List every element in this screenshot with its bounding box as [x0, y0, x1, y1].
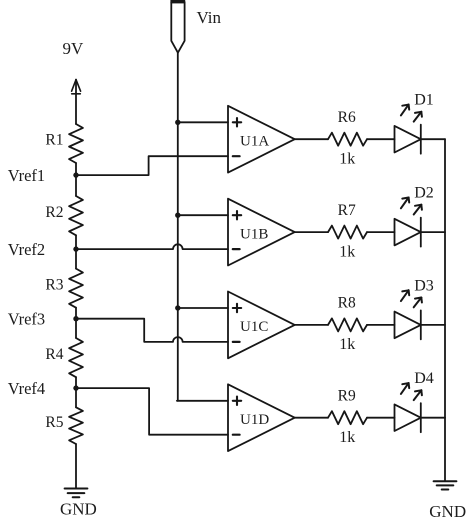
svg-text:U1D: U1D — [240, 412, 269, 428]
wire U1B output to R7 — [295, 231, 328, 233]
node Vref4 junction dot — [73, 385, 78, 390]
wire output rail (LED cathodes to ground) — [444, 139, 446, 481]
svg-text:R8: R8 — [338, 295, 356, 312]
junction dot Vin / U1A + input — [175, 120, 180, 125]
svg-text:R4: R4 — [45, 346, 63, 363]
wire R4 to R5 — [75, 377, 77, 407]
wire Vin to U1D non-inverting input — [177, 400, 228, 402]
resistor R8 — [328, 318, 367, 331]
wire U1D output to R9 — [295, 417, 328, 419]
svg-text:Vref3: Vref3 — [8, 310, 46, 329]
wire D4 to output rail — [421, 417, 445, 419]
svg-text:Vref4: Vref4 — [8, 379, 46, 398]
wire R8 to D3 — [367, 324, 395, 326]
op-amp U1A — [228, 106, 295, 173]
node Vref1 junction dot — [73, 172, 78, 177]
svg-text:GND: GND — [429, 502, 466, 521]
wire D2 to output rail — [421, 231, 445, 233]
svg-text:1k: 1k — [339, 243, 355, 260]
wire Vref4 to U1D inverting input — [76, 388, 228, 435]
resistor R5 — [69, 407, 83, 444]
svg-text:R9: R9 — [338, 388, 356, 405]
ground (left) — [65, 489, 88, 498]
wire 9V to R1 — [75, 80, 77, 124]
wire D3 to output rail — [421, 324, 445, 326]
svg-text:GND: GND — [60, 499, 97, 518]
wire Vref1 to U1A inverting input — [76, 156, 228, 175]
node Vref2 junction dot — [73, 246, 78, 251]
svg-text:Vin: Vin — [197, 8, 222, 27]
pin - (inverting input) of U1B — [233, 248, 240, 250]
wire Vref2 to U1B inverting input — [76, 244, 228, 249]
LED D1 — [395, 105, 422, 154]
resistor R7 — [328, 226, 367, 239]
wire U1C output to R8 — [295, 324, 328, 326]
svg-text:R2: R2 — [45, 204, 63, 221]
svg-text:1k: 1k — [339, 151, 355, 168]
pin - (inverting input) of U1D — [233, 434, 240, 436]
9V supply arrow — [72, 80, 81, 94]
junction dot Vin / U1C + input — [175, 305, 180, 310]
pin - (inverting input) of U1A — [233, 155, 240, 157]
wire R1 to R2 — [75, 163, 77, 196]
LED D2 — [395, 198, 422, 247]
svg-text:R6: R6 — [338, 109, 356, 126]
svg-text:D2: D2 — [414, 185, 434, 202]
svg-text:U1B: U1B — [240, 226, 268, 242]
op-amp U1B — [228, 199, 295, 266]
svg-text:9V: 9V — [63, 39, 85, 58]
svg-text:1k: 1k — [339, 336, 355, 353]
wire R3 to R4 — [75, 308, 77, 338]
resistor R3 — [69, 269, 83, 308]
junction dot Vin / U1B + input — [175, 213, 180, 218]
op-amp U1D — [228, 384, 295, 451]
svg-text:R1: R1 — [45, 132, 63, 149]
svg-text:U1C: U1C — [240, 319, 268, 335]
op-amp U1C — [228, 292, 295, 359]
wire Vin to U1C non-inverting input — [178, 307, 228, 309]
LED D4 — [395, 383, 422, 432]
resistor R9 — [328, 411, 367, 424]
svg-text:R3: R3 — [45, 276, 63, 293]
pin + (non-inverting input) of U1A — [233, 121, 241, 123]
node Vref3 junction dot — [73, 316, 78, 321]
wire Vin vertical net — [177, 53, 179, 401]
pin + (non-inverting input) of U1C — [233, 307, 241, 309]
svg-text:U1A: U1A — [240, 133, 269, 149]
svg-text:D4: D4 — [414, 370, 434, 387]
svg-text:D3: D3 — [414, 277, 434, 294]
svg-text:1k: 1k — [339, 429, 355, 446]
wire Vref3 to U1C inverting input — [76, 319, 228, 342]
pin + (non-inverting input) of U1B — [233, 214, 241, 216]
pin + (non-inverting input) of U1D — [233, 400, 241, 402]
ground (right) — [434, 481, 457, 489]
wire R9 to D4 — [367, 417, 395, 419]
wire U1A output to R6 — [295, 138, 328, 140]
wire R5 to ground — [75, 444, 77, 489]
pin - (inverting input) of U1C — [233, 341, 240, 343]
wire Vin to U1B non-inverting input — [178, 214, 228, 216]
resistor R6 — [328, 133, 367, 146]
wire Vin to U1A non-inverting input — [178, 121, 228, 123]
LED D3 — [395, 290, 422, 339]
wire R2 to R3 — [75, 235, 77, 268]
svg-text:Vref2: Vref2 — [8, 240, 46, 259]
Vin probe connector — [170, 0, 185, 53]
svg-text:Vref1: Vref1 — [8, 166, 46, 185]
resistor R4 — [69, 338, 83, 377]
svg-text:R5: R5 — [45, 414, 63, 431]
resistor R2 — [69, 196, 83, 235]
wire R6 to D1 — [367, 138, 395, 140]
svg-text:D1: D1 — [414, 92, 434, 109]
resistor R1 — [69, 124, 83, 163]
svg-text:R7: R7 — [338, 202, 356, 219]
wire R7 to D2 — [367, 231, 395, 233]
wire D1 to output rail — [421, 138, 445, 140]
